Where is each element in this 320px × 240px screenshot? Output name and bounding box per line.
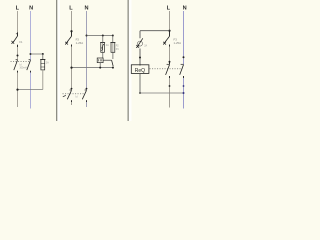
dashed mechanical link (panel 1 RCD) xyxy=(11,61,30,63)
relay coil box (panel 2) xyxy=(97,58,103,63)
svg-text:1-25A: 1-25A xyxy=(174,41,182,45)
svg-text:300mA: 300mA xyxy=(20,66,28,69)
svg-text:N: N xyxy=(29,5,33,11)
wire: drop from tap to fuse (panel 1) xyxy=(42,54,44,60)
svg-text:2A: 2A xyxy=(144,45,147,48)
node: L lower tick (panel 3) xyxy=(169,85,171,87)
node: N tap dot (panel 2) xyxy=(86,35,88,37)
push button blade (panel 2) xyxy=(112,60,114,66)
relay contact on N (panel 3) xyxy=(180,64,184,78)
panel divider 2 xyxy=(128,0,132,121)
node: L contact top dot (panel 3) xyxy=(169,61,171,63)
node: tap corner dot (panel 1) xyxy=(42,53,44,55)
node: tap dot at fuse 1 (panel 2) xyxy=(102,35,104,37)
wire: N rail panel 1 xyxy=(30,11,32,109)
wire: bottom link L to button (panel 2) xyxy=(72,67,113,69)
wire: drop to fuse 2 (panel 2) xyxy=(112,36,114,43)
svg-text:1-25A: 1-25A xyxy=(76,41,84,45)
relay coil box ReQ (panel 3) xyxy=(131,65,149,74)
wire: bottom link to N (panel 3) xyxy=(140,92,184,94)
wire: relay column bottom (panel 3) xyxy=(139,73,141,93)
node: N tap dot (panel 1) xyxy=(30,53,32,55)
svg-text:L: L xyxy=(16,5,20,11)
circuit breaker F1 (panel 1 L rail) xyxy=(11,32,17,47)
wire: fuse 2 drop end (panel 2) xyxy=(112,52,114,59)
circuit breaker F3 (panel 2 L rail) xyxy=(65,31,71,46)
node: L branch dot (panel 3) xyxy=(168,30,170,32)
node: N bottom junction (panel 3) xyxy=(183,92,185,94)
dashed mechanical link (panel 3 relay) xyxy=(150,68,183,70)
RCD contact on N (panel 2) xyxy=(82,88,87,102)
wire: N rail panel 3 xyxy=(183,11,185,109)
svg-text:N: N xyxy=(84,5,88,11)
wire: coil bottom stub (panel 2) xyxy=(99,63,101,68)
fuse/SPD box (panel 1) xyxy=(40,60,45,70)
dashed mechanical link (panel 2 RCD) xyxy=(63,93,86,95)
RCD contact on L (panel 1) xyxy=(14,60,18,73)
wire: fuse1 to coil (panel 2) xyxy=(102,52,104,58)
node: dot on relay column (panel 3) xyxy=(139,57,141,59)
node: breaker top dot (panel 2) xyxy=(70,30,72,32)
relay contact on L (panel 3) xyxy=(166,62,170,78)
node: tap end dot (panel 2) xyxy=(112,35,114,37)
wire: L rail panel 1 xyxy=(17,11,19,107)
wire: drop to fuse 1 (panel 2) xyxy=(102,36,104,43)
wire: branch to relay column (panel 3) xyxy=(140,30,170,32)
svg-text:L: L xyxy=(69,5,73,11)
node: L contact top dot (panel 1) xyxy=(17,55,19,57)
node: button bottom junction (panel 2) xyxy=(112,67,114,69)
panel divider 1 xyxy=(56,0,60,121)
wire: N rail panel 2 xyxy=(86,11,88,107)
wire: L rail panel 3 xyxy=(169,11,171,108)
wire: top tap (panel 2) xyxy=(87,35,113,37)
node: N lower tick (panel 3) xyxy=(183,85,185,87)
wire: tap from N to fuse drop (panel 1) xyxy=(31,53,43,55)
wire: coil to button (panel 2) xyxy=(103,59,112,61)
fuse box 2 (panel 2) xyxy=(110,43,115,53)
node: junction L (panel 2) xyxy=(70,67,72,69)
svg-text:ReQ: ReQ xyxy=(135,68,145,74)
wire: fuse bottom down (panel 1) xyxy=(42,70,44,90)
RCD contact on L (panel 2) xyxy=(67,88,72,102)
circuit breaker F3 (panel 3 L rail) xyxy=(163,31,169,47)
svg-text:L: L xyxy=(167,5,171,11)
RCD contact on N (panel 1) xyxy=(27,60,31,73)
node: N contact top dot (panel 3) xyxy=(183,56,185,58)
svg-text:N: N xyxy=(183,5,187,11)
svg-text:2A: 2A xyxy=(46,62,49,65)
fuse-switch with lamp (panel 3) xyxy=(136,31,143,66)
node: junction on L rail (panel 1) xyxy=(16,89,18,91)
wire: L rail panel 2 xyxy=(71,11,73,105)
svg-text:4A: 4A xyxy=(106,44,109,47)
node: coil stub junction (panel 2) xyxy=(99,67,101,69)
wire: bottom link to L rail (panel 1) xyxy=(18,89,43,91)
fuse box 1 with striker (panel 2) xyxy=(100,43,105,53)
